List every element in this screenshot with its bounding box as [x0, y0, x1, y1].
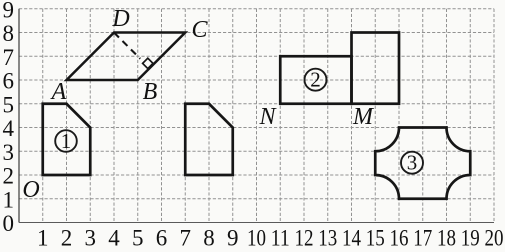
svg-text:9: 9: [3, 0, 15, 22]
svg-text:8: 8: [203, 226, 215, 251]
svg-text:2: 2: [3, 164, 15, 189]
svg-text:3: 3: [407, 151, 418, 175]
svg-text:N: N: [258, 104, 277, 130]
svg-text:12: 12: [295, 226, 314, 251]
svg-text:2: 2: [310, 68, 321, 92]
shape 2 right rectangle: [352, 33, 400, 104]
svg-text:M: M: [352, 104, 375, 130]
pentagon 1: [43, 104, 91, 175]
svg-text:1: 1: [37, 226, 49, 251]
shape 2 left rectangle: [280, 56, 351, 104]
right angle marker at E: [143, 58, 153, 68]
svg-text:16: 16: [390, 226, 409, 251]
shape 3 square with concave corners: [375, 128, 470, 199]
y axis line x=0: [18, 9, 20, 223]
svg-text:11: 11: [271, 226, 290, 251]
svg-text:2: 2: [61, 226, 73, 251]
svg-text:17: 17: [413, 226, 432, 251]
y axis numbers 0-9: [3, 0, 15, 236]
svg-text:1: 1: [3, 188, 15, 213]
svg-text:10: 10: [247, 226, 266, 251]
circled 1: [55, 129, 77, 153]
svg-text:0: 0: [3, 211, 15, 236]
svg-text:7: 7: [3, 45, 15, 70]
pentagon translated copy: [185, 104, 233, 175]
svg-text:13: 13: [318, 226, 337, 251]
dashed height D to E: [114, 33, 140, 59]
svg-text:4: 4: [108, 226, 120, 251]
svg-text:7: 7: [180, 226, 192, 251]
svg-text:4: 4: [3, 116, 15, 141]
svg-text:3: 3: [85, 226, 97, 251]
svg-text:20: 20: [485, 226, 504, 251]
svg-text:19: 19: [461, 226, 480, 251]
x axis numbers 1-20: [37, 226, 504, 251]
svg-text:15: 15: [366, 226, 385, 251]
svg-text:D: D: [111, 6, 129, 32]
svg-text:O: O: [22, 177, 39, 203]
parallelogram ABCD: [67, 33, 186, 81]
svg-text:14: 14: [342, 226, 361, 251]
svg-text:3: 3: [3, 140, 15, 165]
svg-text:6: 6: [3, 69, 15, 94]
svg-text:1: 1: [61, 129, 72, 153]
svg-text:A: A: [50, 79, 67, 105]
svg-text:C: C: [191, 17, 208, 43]
svg-text:B: B: [143, 79, 158, 105]
circled 3: [401, 151, 423, 175]
svg-text:5: 5: [132, 226, 144, 251]
svg-text:9: 9: [227, 226, 239, 251]
svg-text:6: 6: [156, 226, 168, 251]
x axis line y=0: [19, 222, 494, 224]
circled 2: [305, 68, 327, 92]
svg-text:8: 8: [3, 21, 15, 46]
svg-text:18: 18: [437, 226, 456, 251]
svg-text:5: 5: [3, 93, 15, 118]
grid dashed lines: [19, 9, 494, 223]
